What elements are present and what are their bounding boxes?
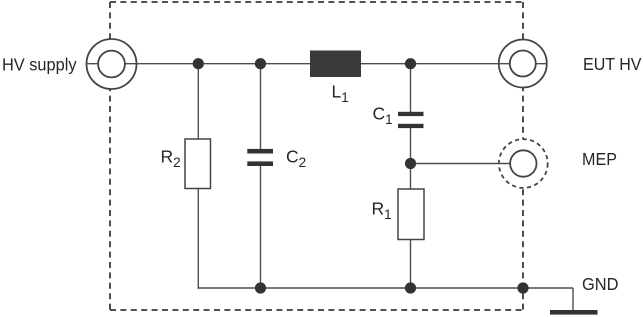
- enclosure dashed box right side: [522, 2, 524, 310]
- svg-text:L1: L1: [332, 82, 349, 106]
- connector EUT HV outer ring: [499, 40, 547, 88]
- wire ground drop: [572, 288, 574, 311]
- inductor L1 body: [310, 51, 361, 78]
- capacitor C1 top plate: [398, 112, 424, 116]
- svg-text:MEP: MEP: [582, 149, 617, 169]
- junction node C1 top: [405, 58, 416, 69]
- junction node R1 bottom: [405, 282, 416, 293]
- wire C2 branch upper: [260, 64, 262, 149]
- junction node C2 bottom: [255, 282, 266, 293]
- svg-text:GND: GND: [582, 274, 619, 294]
- junction node R2 top: [193, 58, 204, 69]
- resistor R1 body: [398, 189, 424, 240]
- junction node C2 top: [255, 58, 266, 69]
- wire C2 branch lower: [260, 166, 262, 288]
- svg-text:HV supply: HV supply: [2, 55, 77, 75]
- resistor R2 body: [185, 139, 211, 189]
- svg-text:C1: C1: [373, 104, 393, 128]
- capacitor C1 bottom plate: [398, 124, 424, 128]
- capacitor C2 top plate: [247, 149, 273, 154]
- connector HV supply inner pin: [98, 51, 125, 78]
- junction node MEP tap: [405, 158, 416, 169]
- junction node enclosure ground: [517, 282, 528, 293]
- capacitor C2 bottom plate: [247, 161, 273, 166]
- wire MEP tap horizontal: [411, 163, 511, 165]
- connector HV supply outer ring: [87, 39, 137, 89]
- svg-text:R2: R2: [161, 147, 181, 170]
- enclosure dashed box left side: [109, 2, 111, 310]
- connector EUT HV inner pin: [510, 51, 536, 77]
- wire R2 branch upper: [197, 64, 199, 139]
- enclosure dashed box bottom side: [110, 309, 523, 311]
- wire main horizontal HV supply to EUT HV: [87, 63, 547, 65]
- connector MEP outer dashed ring: [499, 139, 548, 188]
- connector MEP inner pin: [510, 150, 536, 176]
- wire R1 bottom leg: [410, 240, 412, 289]
- svg-text:C2: C2: [286, 147, 306, 170]
- wire bottom ground bus: [198, 287, 573, 289]
- enclosure dashed box top side: [110, 1, 523, 3]
- wire C1 branch upper: [410, 64, 412, 112]
- wire C1 to R1 through MEP node: [410, 128, 412, 189]
- wire R2 branch lower: [197, 189, 199, 289]
- svg-text:EUT HV: EUT HV: [583, 54, 642, 74]
- ground symbol bar: [550, 310, 598, 315]
- svg-text:R1: R1: [372, 199, 392, 223]
